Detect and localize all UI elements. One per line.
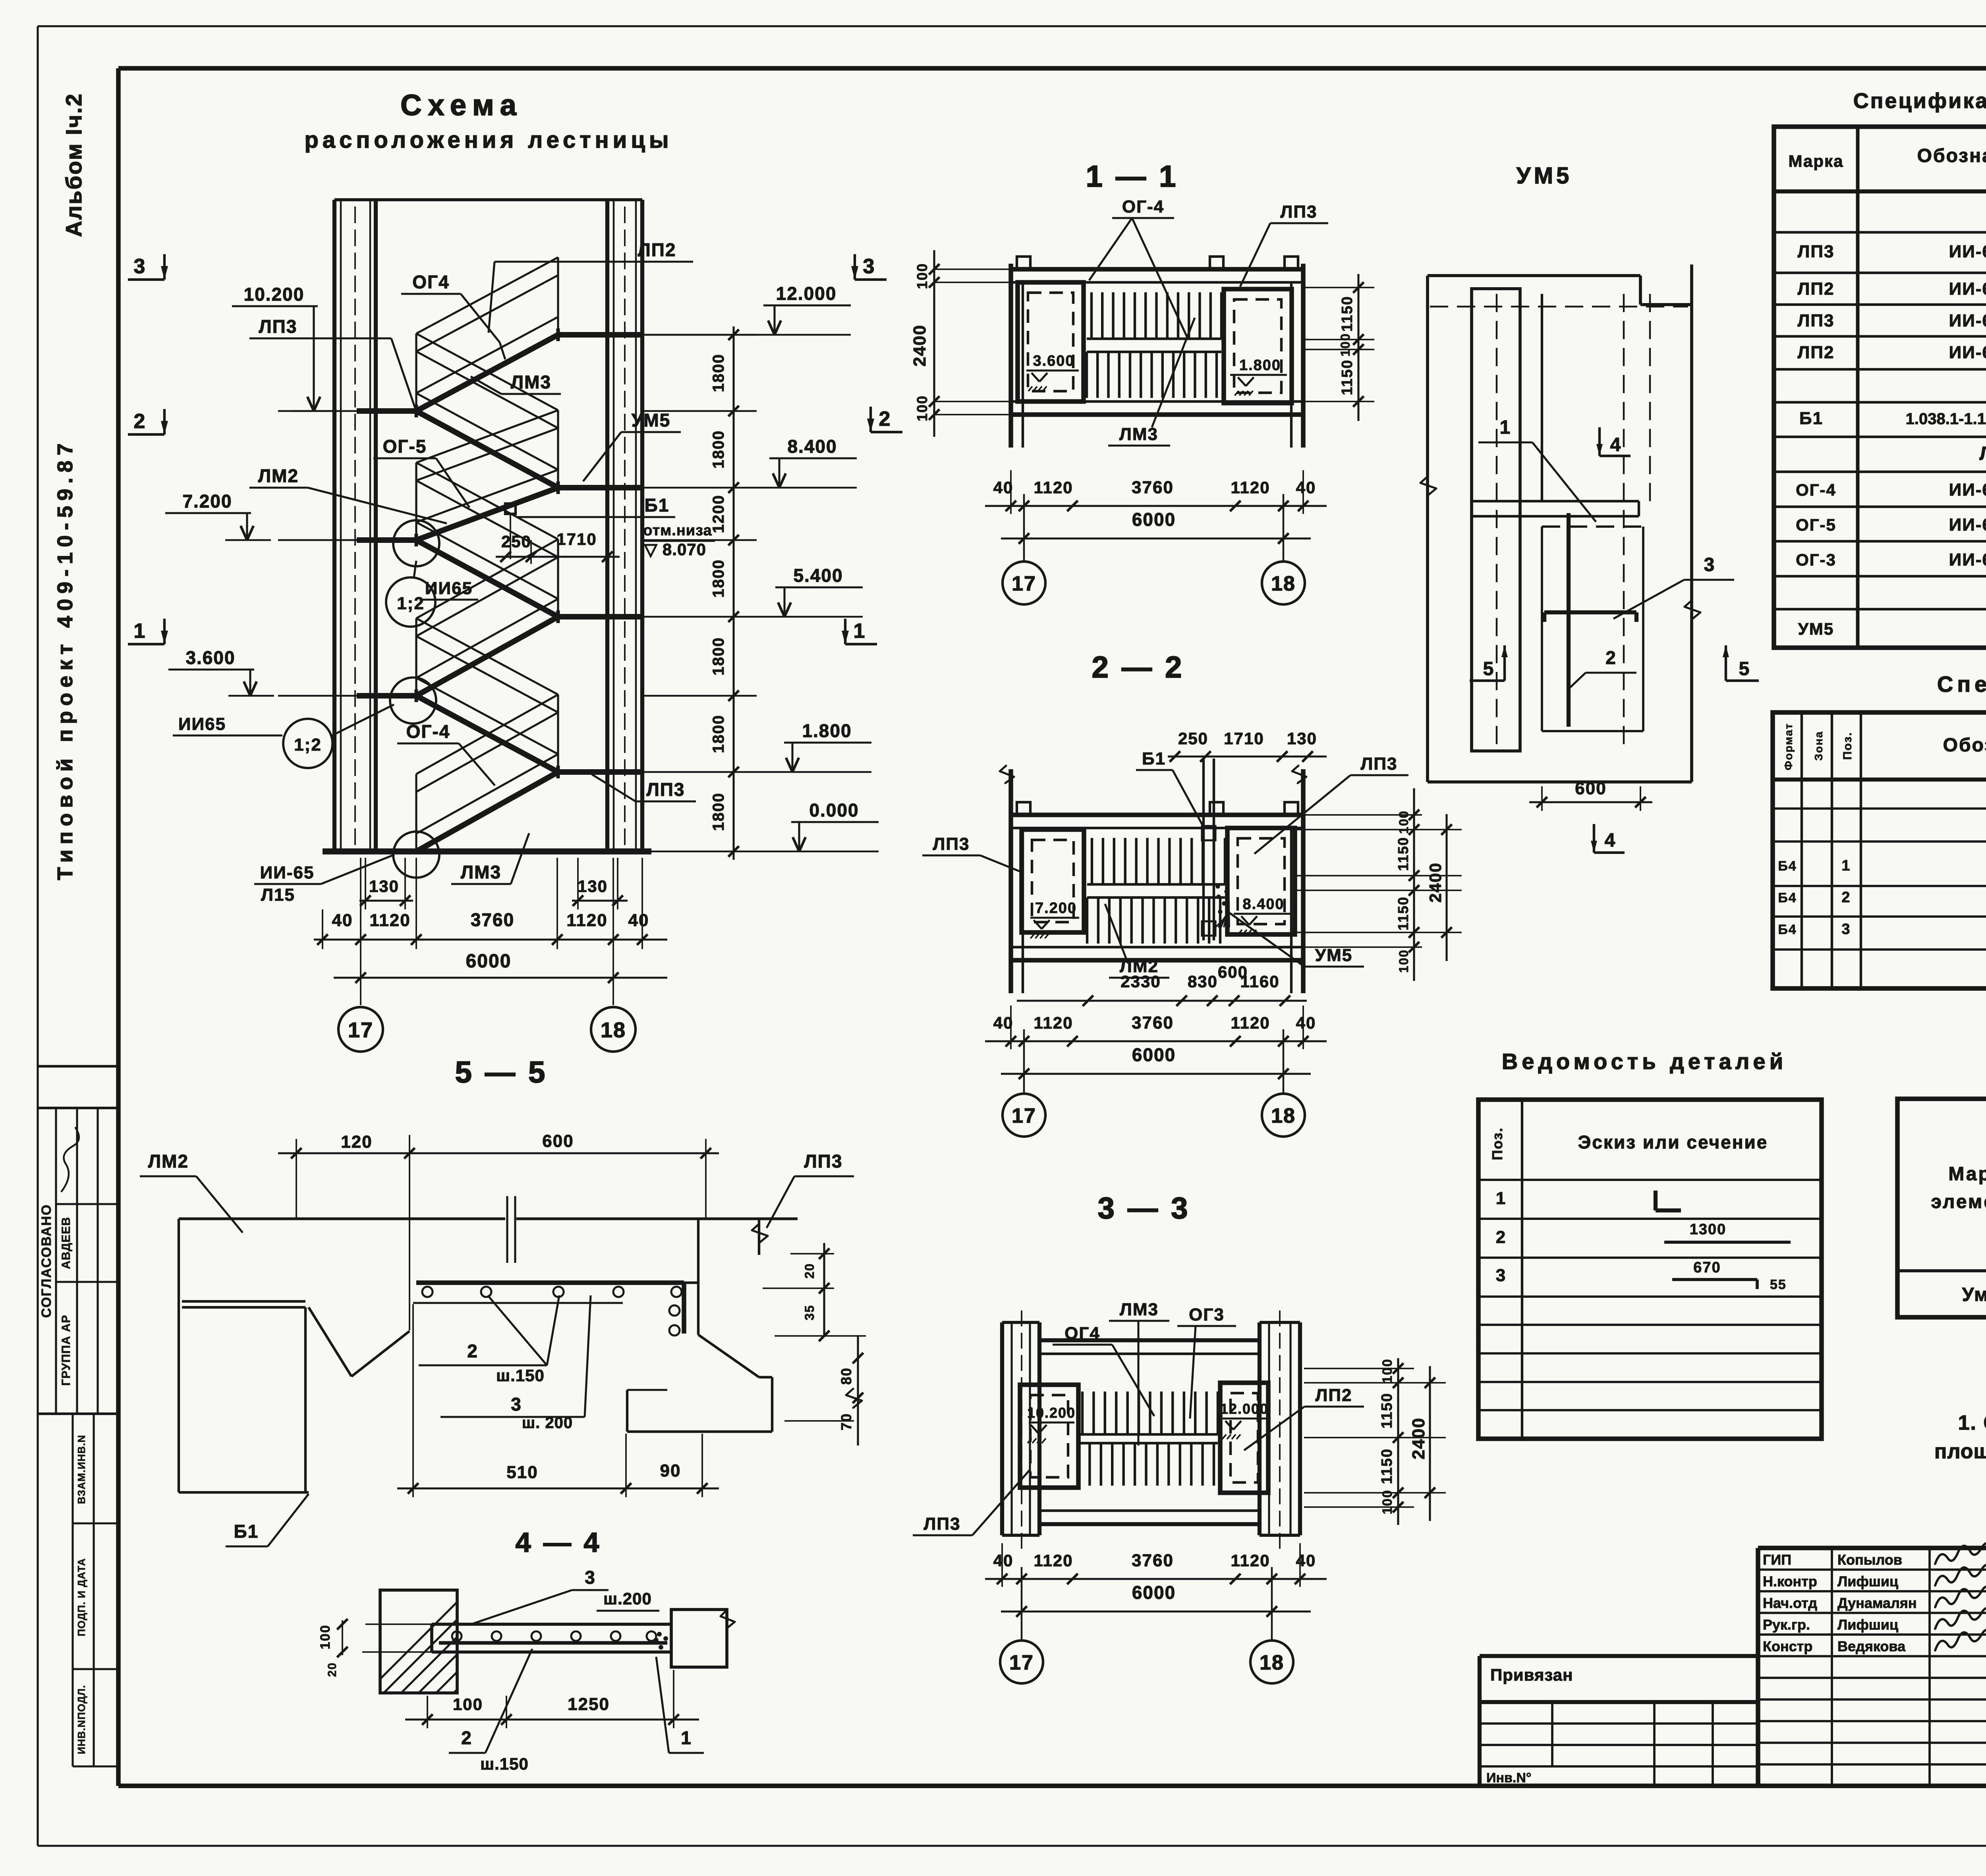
svg-text:18: 18: [1271, 1104, 1296, 1127]
svg-text:1: 1: [134, 620, 146, 643]
svg-text:▽ 8.070: ▽ 8.070: [644, 540, 706, 559]
svg-text:Поз.: Поз.: [1489, 1127, 1505, 1160]
svg-text:3 — 3: 3 — 3: [1098, 1191, 1190, 1225]
svg-text:1160: 1160: [1240, 972, 1279, 991]
svg-text:40: 40: [993, 1551, 1014, 1570]
svg-text:130: 130: [369, 877, 399, 896]
svg-text:100: 100: [1397, 949, 1411, 973]
svg-text:6000: 6000: [1132, 509, 1176, 530]
svg-text:1: 1: [1500, 417, 1511, 438]
svg-text:Дунамалян: Дунамалян: [1837, 1595, 1917, 1611]
svg-text:ЛП3: ЛП3: [259, 316, 298, 337]
svg-text:ОГ-4: ОГ-4: [406, 721, 450, 742]
svg-text:Ведомость деталей: Ведомость деталей: [1502, 1049, 1787, 1074]
svg-text:ОГ-4: ОГ-4: [1122, 197, 1164, 216]
svg-text:ЛП3: ЛП3: [1798, 242, 1835, 261]
svg-text:Б1: Б1: [234, 1521, 259, 1542]
svg-text:отм.низа: отм.низа: [643, 522, 712, 539]
svg-text:7.200: 7.200: [182, 491, 232, 511]
svg-text:1.800: 1.800: [1239, 357, 1281, 374]
svg-text:130: 130: [578, 877, 608, 896]
svg-text:Констр: Констр: [1763, 1638, 1812, 1654]
svg-text:ИИ65: ИИ65: [178, 714, 226, 734]
svg-text:ГИП: ГИП: [1763, 1552, 1791, 1568]
svg-text:1300: 1300: [1690, 1221, 1727, 1238]
svg-text:Лифшиц: Лифшиц: [1837, 1617, 1898, 1633]
svg-text:ИИ-65: ИИ-65: [1949, 480, 1986, 500]
svg-text:ИИ-65: ИИ-65: [260, 863, 315, 882]
svg-text:3: 3: [511, 1394, 522, 1415]
svg-text:ш.200: ш.200: [603, 1589, 652, 1608]
svg-text:Марка: Марка: [1789, 152, 1844, 170]
svg-text:3760: 3760: [1132, 478, 1174, 497]
svg-text:2: 2: [134, 410, 146, 433]
svg-text:17: 17: [1012, 572, 1036, 595]
svg-text:6000: 6000: [466, 951, 512, 972]
svg-text:1: 1: [1841, 857, 1851, 874]
svg-text:100: 100: [1380, 1490, 1395, 1515]
svg-text:ЛП3: ЛП3: [924, 1514, 961, 1534]
svg-text:2330: 2330: [1121, 972, 1161, 991]
svg-text:Б4: Б4: [1778, 859, 1797, 874]
svg-text:100: 100: [1380, 1359, 1395, 1384]
svg-text:3760: 3760: [471, 909, 514, 930]
svg-text:0.000: 0.000: [809, 800, 859, 820]
svg-text:1150: 1150: [1339, 359, 1356, 395]
svg-text:1120: 1120: [566, 911, 607, 930]
svg-text:4: 4: [1605, 830, 1616, 851]
svg-text:2: 2: [1841, 889, 1851, 906]
svg-text:10.200: 10.200: [1027, 1405, 1076, 1421]
svg-text:100: 100: [1338, 333, 1352, 356]
svg-text:Инв.N°: Инв.N°: [1486, 1770, 1531, 1785]
svg-text:20: 20: [326, 1662, 339, 1677]
svg-text:40: 40: [1296, 478, 1316, 497]
svg-text:Эскиз или сечение: Эскиз или сечение: [1578, 1132, 1768, 1152]
svg-text:Марка: Марка: [1948, 1164, 1986, 1185]
svg-text:ИИ-65: ИИ-65: [1949, 279, 1986, 299]
svg-text:Типовой проект 409-10-59.87: Типовой проект 409-10-59.87: [53, 438, 77, 880]
svg-text:ЛП2: ЛП2: [1316, 1386, 1352, 1405]
svg-text:250: 250: [501, 532, 531, 551]
svg-text:ш. 200: ш. 200: [522, 1414, 573, 1432]
svg-text:Спецификация к УМ5: Спецификация к УМ5: [1937, 672, 1986, 697]
svg-text:1250: 1250: [568, 1695, 610, 1714]
svg-text:2: 2: [461, 1727, 472, 1748]
svg-text:4 — 4: 4 — 4: [516, 1527, 602, 1558]
svg-text:ЛМ2: ЛМ2: [258, 465, 299, 486]
svg-text:Рук.гр.: Рук.гр.: [1763, 1617, 1810, 1633]
svg-text:ЛП3: ЛП3: [647, 779, 685, 800]
svg-text:1800: 1800: [710, 637, 727, 676]
svg-text:1120: 1120: [1231, 1551, 1270, 1570]
svg-text:7.200: 7.200: [1035, 900, 1077, 917]
svg-text:670: 670: [1693, 1259, 1721, 1276]
svg-text:1120: 1120: [1231, 478, 1270, 497]
svg-text:2400: 2400: [1426, 862, 1445, 902]
svg-text:130: 130: [1287, 729, 1317, 748]
svg-text:2: 2: [879, 407, 891, 430]
svg-text:1: 1: [854, 620, 866, 643]
svg-text:17: 17: [1012, 1104, 1036, 1127]
svg-text:Б1: Б1: [645, 495, 670, 515]
svg-text:18: 18: [1260, 1651, 1284, 1674]
svg-text:Б4: Б4: [1778, 922, 1797, 937]
svg-text:ЛП3: ЛП3: [1361, 754, 1398, 774]
svg-text:ОГ3: ОГ3: [1189, 1305, 1225, 1324]
svg-text:1800: 1800: [710, 559, 727, 598]
svg-text:Поз.: Поз.: [1841, 732, 1854, 760]
svg-text:Спецификация к схеме распол: Спецификация к схеме расположения лестни…: [1853, 89, 1986, 113]
svg-text:1.038.1-1.1 150000-01: 1.038.1-1.1 150000-01: [1906, 410, 1986, 428]
svg-text:ИИ-65: ИИ-65: [1949, 550, 1986, 569]
svg-text:УМ5: УМ5: [1315, 946, 1353, 965]
svg-text:830: 830: [1188, 972, 1218, 991]
svg-text:1150: 1150: [1379, 1448, 1395, 1484]
svg-text:ЛМ3: ЛМ3: [461, 862, 501, 882]
svg-text:АВДЕЕВ: АВДЕЕВ: [60, 1217, 73, 1269]
svg-text:Лифшиц: Лифшиц: [1837, 1573, 1898, 1590]
svg-text:40: 40: [1296, 1551, 1316, 1570]
svg-text:Обозначение: Обозначение: [1943, 735, 1986, 756]
svg-text:Б1: Б1: [1799, 409, 1823, 428]
svg-text:ИИ65: ИИ65: [425, 579, 473, 598]
svg-text:6000: 6000: [1132, 1582, 1176, 1603]
svg-text:100: 100: [318, 1625, 333, 1650]
svg-text:250: 250: [1178, 729, 1208, 748]
svg-text:6000: 6000: [1132, 1044, 1176, 1065]
svg-text:ГРУППА АР: ГРУППА АР: [60, 1314, 73, 1386]
svg-text:1: 1: [1496, 1189, 1506, 1208]
svg-text:3760: 3760: [1132, 1551, 1174, 1570]
svg-text:ИИ-65: ИИ-65: [1949, 343, 1986, 362]
svg-text:3760: 3760: [1132, 1013, 1174, 1033]
svg-text:3: 3: [585, 1567, 596, 1588]
svg-text:2: 2: [1605, 647, 1617, 668]
svg-text:1710: 1710: [1224, 729, 1264, 748]
svg-text:5.400: 5.400: [793, 565, 843, 586]
svg-text:3.600: 3.600: [1033, 353, 1074, 369]
svg-text:1120: 1120: [1034, 1551, 1073, 1570]
svg-text:2: 2: [1496, 1228, 1506, 1247]
svg-text:2400: 2400: [910, 324, 929, 367]
svg-text:55: 55: [1770, 1277, 1787, 1292]
svg-text:Лестничные ограждения: Лестничные ограждения: [1979, 443, 1986, 464]
svg-text:площадок окрасить масляной: площадок окрасить масляной краской за 2 …: [1934, 1440, 1986, 1463]
svg-text:600: 600: [542, 1131, 574, 1151]
svg-text:100: 100: [453, 1695, 483, 1714]
svg-text:1: 1: [681, 1727, 692, 1748]
svg-text:1800: 1800: [710, 430, 727, 469]
svg-text:5: 5: [1483, 658, 1495, 679]
svg-text:510: 510: [506, 1463, 538, 1482]
svg-text:Б1: Б1: [1142, 749, 1166, 768]
svg-text:1150: 1150: [1395, 837, 1411, 871]
svg-text:ЛП2: ЛП2: [1798, 343, 1835, 362]
svg-text:1150: 1150: [1395, 896, 1411, 930]
svg-text:100: 100: [914, 395, 930, 421]
svg-text:1120: 1120: [369, 911, 410, 930]
svg-text:ИИ-65: ИИ-65: [1949, 515, 1986, 535]
svg-text:ИНВ.NПОДЛ.: ИНВ.NПОДЛ.: [75, 1685, 87, 1754]
svg-text:1120: 1120: [1034, 1013, 1073, 1032]
svg-text:ОГ-3: ОГ-3: [1796, 550, 1836, 569]
svg-text:ОГ4: ОГ4: [412, 272, 449, 292]
svg-text:12.000: 12.000: [776, 283, 837, 304]
svg-text:Ведякова: Ведякова: [1837, 1638, 1906, 1654]
svg-text:70: 70: [838, 1413, 854, 1430]
svg-text:ЛП3: ЛП3: [1798, 311, 1835, 330]
svg-text:Обозначение: Обозначение: [1917, 145, 1986, 166]
svg-text:Зона: Зона: [1812, 731, 1825, 760]
svg-text:1120: 1120: [1231, 1013, 1270, 1032]
svg-text:40: 40: [628, 911, 649, 930]
svg-text:ОГ-5: ОГ-5: [383, 436, 427, 457]
svg-text:1150: 1150: [1339, 296, 1356, 332]
svg-text:Привязан: Привязан: [1490, 1666, 1573, 1684]
svg-text:Ум5: Ум5: [1962, 1284, 1986, 1305]
svg-text:ПОДП. И ДАТА: ПОДП. И ДАТА: [75, 1558, 87, 1636]
svg-text:3: 3: [1496, 1266, 1506, 1285]
svg-text:100: 100: [914, 263, 930, 289]
svg-text:Б4: Б4: [1778, 890, 1797, 905]
svg-text:Альбом Iч.2: Альбом Iч.2: [61, 93, 86, 237]
svg-text:40: 40: [332, 911, 353, 930]
svg-text:ИИ-65: ИИ-65: [1949, 311, 1986, 330]
svg-text:УМ5: УМ5: [1798, 620, 1834, 638]
svg-text:4: 4: [1610, 434, 1622, 455]
svg-text:1120: 1120: [1034, 478, 1073, 497]
svg-text:18: 18: [601, 1018, 626, 1042]
svg-text:1800: 1800: [710, 793, 727, 831]
svg-text:ЛП3: ЛП3: [804, 1151, 843, 1172]
svg-text:2400: 2400: [1409, 1417, 1428, 1459]
svg-text:1800: 1800: [710, 354, 727, 392]
svg-text:Н.контр: Н.контр: [1763, 1573, 1817, 1590]
svg-text:12.000: 12.000: [1220, 1401, 1269, 1417]
svg-text:90: 90: [660, 1461, 681, 1480]
svg-text:17: 17: [348, 1018, 373, 1042]
svg-text:2 — 2: 2 — 2: [1092, 650, 1184, 684]
svg-text:3: 3: [1841, 921, 1851, 938]
svg-text:СОГЛАСОВАНО: СОГЛАСОВАНО: [39, 1204, 54, 1318]
svg-text:1;2: 1;2: [397, 594, 425, 613]
svg-text:ш.150: ш.150: [480, 1754, 529, 1773]
svg-text:8.400: 8.400: [787, 436, 837, 457]
svg-text:ЛП3: ЛП3: [933, 834, 970, 854]
svg-text:3.600: 3.600: [185, 647, 235, 668]
svg-text:1800: 1800: [710, 715, 727, 753]
svg-text:2: 2: [467, 1341, 478, 1361]
svg-text:17: 17: [1009, 1651, 1034, 1674]
svg-text:ЛМ2: ЛМ2: [148, 1151, 189, 1172]
svg-text:УМ5: УМ5: [1517, 163, 1573, 189]
svg-text:ЛП2: ЛП2: [1798, 279, 1835, 299]
svg-text:ЛП3: ЛП3: [1281, 202, 1318, 222]
svg-text:Нач.отд: Нач.отд: [1763, 1595, 1817, 1611]
svg-text:1150: 1150: [1379, 1393, 1395, 1428]
svg-text:1710: 1710: [556, 530, 597, 548]
svg-text:3: 3: [863, 255, 875, 278]
svg-text:УМ5: УМ5: [632, 410, 671, 430]
svg-text:120: 120: [341, 1132, 372, 1152]
svg-text:Л15: Л15: [261, 885, 295, 905]
svg-text:18: 18: [1271, 572, 1296, 595]
svg-text:Копылов: Копылов: [1837, 1552, 1902, 1568]
svg-text:ОГ-5: ОГ-5: [1796, 515, 1836, 534]
svg-text:8.400: 8.400: [1242, 896, 1284, 913]
svg-text:80: 80: [838, 1367, 854, 1385]
svg-text:10.200: 10.200: [244, 284, 305, 305]
svg-text:ЛМ3: ЛМ3: [511, 372, 551, 392]
svg-text:5: 5: [1739, 658, 1750, 679]
svg-text:1. Стальные элементы огражде: 1. Стальные элементы ограждений маршей и: [1958, 1411, 1986, 1434]
svg-text:1 — 1: 1 — 1: [1086, 160, 1178, 193]
svg-text:1.800: 1.800: [802, 720, 852, 741]
svg-text:ОГ-4: ОГ-4: [1796, 481, 1836, 499]
svg-text:5 — 5: 5 — 5: [455, 1056, 548, 1089]
svg-text:40: 40: [1296, 1013, 1316, 1032]
svg-text:1;2: 1;2: [294, 735, 322, 755]
svg-text:ИИ-65: ИИ-65: [1949, 242, 1986, 261]
svg-text:600: 600: [1575, 779, 1606, 798]
svg-text:Схема: Схема: [400, 89, 523, 122]
svg-text:Формат: Формат: [1782, 723, 1795, 770]
svg-text:расположения лестницы: расположения лестницы: [304, 127, 672, 153]
svg-text:ЛМ3: ЛМ3: [1120, 1300, 1159, 1319]
svg-text:ЛП2: ЛП2: [638, 239, 676, 260]
svg-text:35: 35: [802, 1305, 817, 1320]
svg-text:элемента: элемента: [1931, 1191, 1986, 1212]
svg-text:3: 3: [134, 255, 146, 278]
svg-text:ВЗАМ.ИНВ.N: ВЗАМ.ИНВ.N: [75, 1435, 87, 1504]
svg-text:20: 20: [802, 1263, 817, 1279]
svg-text:1200: 1200: [710, 495, 727, 533]
svg-text:ш.150: ш.150: [496, 1366, 545, 1385]
svg-text:3: 3: [1704, 554, 1716, 575]
